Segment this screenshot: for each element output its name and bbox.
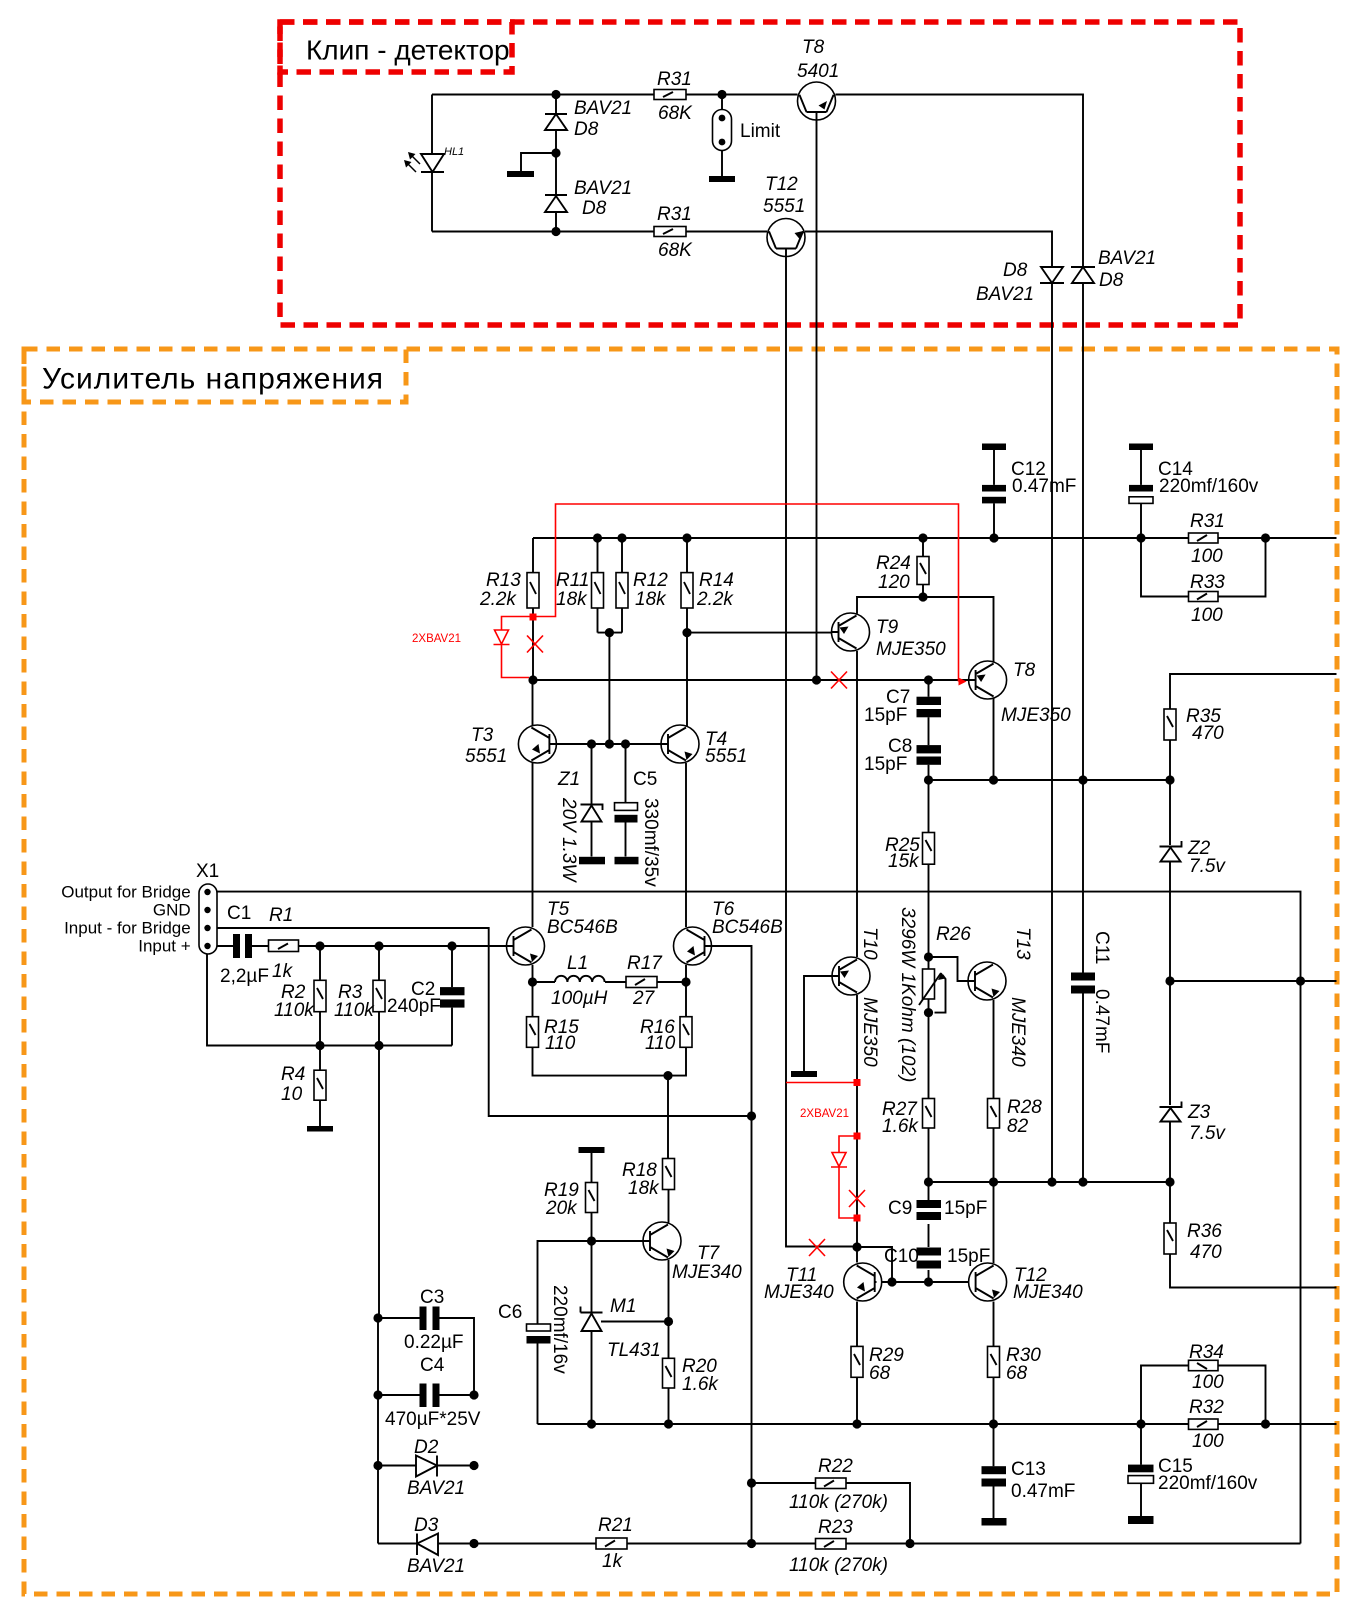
svg-text:100: 100 <box>1191 546 1223 567</box>
wire: C15 column <box>1140 1424 1142 1516</box>
svg-text:Input - for Bridge: Input - for Bridge <box>64 919 191 938</box>
svg-text:T10: T10 <box>859 927 880 960</box>
svg-text:T9: T9 <box>876 617 899 638</box>
capacitor C4 470uF*25V <box>378 1355 481 1430</box>
svg-text:15pF: 15pF <box>864 705 907 726</box>
wire: clip left loop with LED <box>431 95 433 232</box>
svg-text:M1: M1 <box>610 1296 636 1317</box>
svg-text:D8: D8 <box>1003 260 1028 281</box>
wire: C14 column <box>1140 450 1142 538</box>
wire: R24 to T9 collector <box>857 597 923 614</box>
wire: L1 R17 line <box>533 981 687 983</box>
svg-text:Limit: Limit <box>740 121 781 142</box>
svg-text:R31: R31 <box>657 204 692 225</box>
diode D8 upper BAV21 <box>545 98 632 140</box>
capacitor C13 0.47mF <box>982 1459 1076 1526</box>
diode D3 BAV21 <box>407 1515 465 1577</box>
wire: T8 collector <box>993 699 995 781</box>
resistor R12 18k <box>616 570 668 610</box>
wire: Z2 column <box>1169 780 1171 981</box>
resistor R14 2.2k <box>681 570 734 610</box>
transistor T9 MJE350 <box>832 613 947 660</box>
svg-text:5401: 5401 <box>797 61 839 82</box>
wire: R11 column <box>597 538 599 633</box>
wire: R31 R33 loop <box>1141 538 1266 597</box>
resistor R32 100 <box>1189 1397 1225 1452</box>
svg-text:5551: 5551 <box>465 746 507 767</box>
wire: T11 collector stub <box>856 1247 858 1263</box>
wire: T12 emitter R30 column <box>993 1302 995 1425</box>
wire: R18 column T7 collector <box>667 1076 670 1223</box>
svg-text:R32: R32 <box>1189 1397 1224 1418</box>
wire: C9 C10 column <box>928 1182 930 1282</box>
transistor T13 MJE340 <box>968 927 1033 1067</box>
svg-text:100: 100 <box>1192 1372 1224 1393</box>
capacitor C5 330mf/35v <box>615 769 662 887</box>
svg-text:68K: 68K <box>658 240 693 261</box>
svg-text:470: 470 <box>1192 723 1224 744</box>
wire: C2 column <box>451 946 453 1046</box>
svg-text:Input +: Input + <box>138 937 191 956</box>
svg-text:68: 68 <box>869 1363 891 1384</box>
svg-text:BC546B: BC546B <box>547 917 618 938</box>
red diode 2XBAV21 (left) <box>412 617 533 678</box>
svg-text:220mf/160v: 220mf/160v <box>1159 476 1259 497</box>
svg-text:Z3: Z3 <box>1187 1102 1211 1123</box>
svg-text:R11: R11 <box>556 570 589 591</box>
svg-text:C4: C4 <box>420 1355 445 1376</box>
wire: bottom feedback line y1543 <box>378 1543 1301 1545</box>
svg-text:20V 1.3W: 20V 1.3W <box>558 797 579 883</box>
resistor R1 1k <box>269 905 299 982</box>
svg-text:C9: C9 <box>888 1198 912 1219</box>
resistor R16 110 <box>640 1017 692 1054</box>
resistor R29 68 <box>851 1345 904 1384</box>
wire: T3 collector <box>532 680 534 726</box>
svg-text:R13: R13 <box>486 570 521 591</box>
svg-text:D8: D8 <box>574 119 599 140</box>
svg-text:R28: R28 <box>1007 1097 1042 1118</box>
svg-text:BAV21: BAV21 <box>1098 248 1156 269</box>
diode BAV21 (clip right, right one) <box>1071 248 1156 291</box>
resistor R13 2.2k <box>479 570 539 610</box>
wire: C5 column <box>625 744 627 857</box>
transistor T4 5551 <box>661 725 747 767</box>
zener Z1 20V 1.3W <box>557 769 603 883</box>
svg-text:T7: T7 <box>697 1243 721 1264</box>
svg-text:20k: 20k <box>545 1198 578 1219</box>
svg-text:3296W 1Kohm (102): 3296W 1Kohm (102) <box>897 907 918 1082</box>
svg-text:R12: R12 <box>633 570 668 591</box>
resistor R15 110 <box>527 1017 580 1054</box>
wire: T6 base down to R22 R23 <box>704 946 752 1544</box>
svg-text:110: 110 <box>545 1033 576 1054</box>
connector Limit <box>709 110 781 183</box>
wire: right feedback vertical x1300 <box>1300 981 1302 1544</box>
svg-text:220mf/16v: 220mf/16v <box>549 1285 570 1374</box>
wire: C3 C4 D2 left column <box>377 1318 379 1544</box>
diode D2 BAV21 <box>378 1437 474 1499</box>
wire: R25 column <box>928 780 930 957</box>
resistor R35 470 <box>1164 706 1224 744</box>
capacitor C11 0.47mF <box>1071 931 1112 1053</box>
diode D8 lower BAV21 <box>545 178 632 219</box>
svg-text:110k (270k): 110k (270k) <box>789 1555 888 1576</box>
wire: R26 pot column <box>928 957 930 1013</box>
wire: R24 column <box>922 538 924 597</box>
resistor R34 100 <box>1189 1342 1225 1393</box>
wire: T12 collector <box>993 1182 995 1263</box>
svg-text:T12: T12 <box>765 174 798 195</box>
capacitor C9 15pF <box>888 1198 987 1220</box>
svg-text:15pF: 15pF <box>864 754 907 775</box>
shunt regulator M1 TL431 <box>581 1296 661 1361</box>
power bar (Z1) <box>579 857 605 865</box>
svg-text:R33: R33 <box>1190 572 1225 593</box>
wire: R22 branch <box>752 1483 911 1544</box>
wire: Z3 column <box>1169 981 1171 1182</box>
capacitor C10 15pF <box>884 1246 990 1269</box>
svg-text:D3: D3 <box>414 1515 439 1536</box>
wire: bottom line y1046 to connector <box>207 954 452 1046</box>
wire: T10 emitter down to T11 <box>856 995 858 1247</box>
svg-text:BAV21: BAV21 <box>407 1556 465 1577</box>
wire: T11 T12 base line <box>877 1281 976 1283</box>
potentiometer R26 3296W 1Kohm (102) <box>897 907 971 1082</box>
svg-text:R36: R36 <box>1187 1221 1222 1242</box>
zener Z2 7.5v <box>1160 838 1227 877</box>
red X cut (T10 emitter) <box>849 1190 865 1207</box>
transistor T7 MJE340 <box>643 1222 742 1283</box>
transistor T8 MJE350 <box>969 660 1072 726</box>
svg-text:C6: C6 <box>498 1302 522 1323</box>
capacitor C8 15pF <box>864 736 941 775</box>
svg-text:BAV21: BAV21 <box>976 284 1034 305</box>
wire: output rail y891 <box>217 892 1301 981</box>
power bar (C5) <box>615 857 639 865</box>
red X cut (T11 collector line) <box>809 1239 825 1256</box>
wire: T11 junction to base line <box>857 1247 892 1282</box>
wire: rail y780 <box>929 779 1171 781</box>
wire: R14 column to T4 collector <box>687 538 832 726</box>
svg-text:Усилитель напряжения: Усилитель напряжения <box>42 363 384 396</box>
capacitor C7 15pF <box>864 687 941 726</box>
wire: rail y981 <box>1170 980 1337 982</box>
svg-text:1k: 1k <box>272 961 294 982</box>
svg-text:T8: T8 <box>1013 660 1036 681</box>
svg-text:2XBAV21: 2XBAV21 <box>800 1108 849 1120</box>
svg-text:L1: L1 <box>567 953 588 974</box>
wire: clip T12 emitter to left diode <box>805 232 1052 268</box>
resistor R21 1k <box>596 1515 633 1572</box>
wire: R12 column <box>598 538 623 744</box>
wire: limit connector stub and ground <box>721 95 723 177</box>
resistor R30 68 <box>988 1345 1042 1384</box>
wire: T3 T4 base line y744 <box>549 743 669 745</box>
wire: X1 pin4 input line <box>217 945 507 947</box>
svg-text:R31: R31 <box>657 69 692 90</box>
svg-text:82: 82 <box>1007 1116 1029 1137</box>
red node square (R13 bottom) <box>530 614 537 621</box>
resistor R36 470 <box>1164 1221 1222 1263</box>
resistor R17 27 <box>626 953 663 1009</box>
svg-text:MJE340: MJE340 <box>1007 997 1028 1067</box>
inductor L1 100uH <box>551 953 608 1009</box>
wire: M1 ref line <box>601 1321 669 1323</box>
svg-text:MJE340: MJE340 <box>764 1282 834 1303</box>
transistor T10 MJE350 <box>832 927 880 1067</box>
svg-text:7.5v: 7.5v <box>1189 1123 1226 1144</box>
svg-text:R4: R4 <box>281 1064 305 1085</box>
svg-text:1k: 1k <box>602 1551 624 1572</box>
resistor R19 20k <box>544 1180 598 1219</box>
transistor T3 5551 <box>465 725 556 767</box>
wire: T3 emitter to T5 collector <box>532 763 534 927</box>
capacitor C12 0.47mF <box>982 444 1076 504</box>
svg-text:1.6k: 1.6k <box>882 1116 919 1137</box>
wire: R34 loop <box>1141 1366 1266 1425</box>
red X cut (below R13) <box>527 636 543 653</box>
wire: amp +rail y538 <box>533 537 1337 539</box>
resistor R31 lower 68K <box>654 204 693 261</box>
svg-text:C10: C10 <box>884 1246 919 1267</box>
svg-text:T8: T8 <box>802 37 825 58</box>
svg-text:C3: C3 <box>420 1287 444 1308</box>
wire: T4 emitter to T6 collector <box>685 763 687 927</box>
svg-text:18k: 18k <box>635 589 667 610</box>
diode D8 (clip right, left one) <box>976 260 1064 305</box>
transistor T5 BC546B <box>507 899 619 965</box>
svg-text:Клип - детектор: Клип - детектор <box>306 35 510 66</box>
capacitor C6 220mf/16v <box>498 1285 570 1374</box>
svg-text:110k (270k): 110k (270k) <box>789 1492 888 1513</box>
svg-text:110: 110 <box>645 1033 676 1054</box>
svg-text:120: 120 <box>878 572 910 593</box>
svg-text:2,2µF: 2,2µF <box>220 966 269 987</box>
svg-text:R22: R22 <box>818 1456 853 1477</box>
resistor R23 110k (270k) <box>789 1517 888 1576</box>
svg-text:Output for Bridge: Output for Bridge <box>61 883 190 902</box>
resistor R24 120 <box>876 553 929 593</box>
svg-text:5551: 5551 <box>705 746 747 767</box>
svg-text:18k: 18k <box>556 589 588 610</box>
svg-text:R26: R26 <box>936 924 971 945</box>
wire: rail y680 T8 base line <box>533 679 969 681</box>
svg-text:GND: GND <box>153 901 191 920</box>
svg-text:T13: T13 <box>1012 927 1033 960</box>
svg-text:MJE350: MJE350 <box>876 639 946 660</box>
ground (R4) <box>307 1126 333 1132</box>
wire: R27 column <box>928 1013 930 1182</box>
clip detector box <box>280 22 1240 325</box>
svg-text:15pF: 15pF <box>944 1198 987 1219</box>
voltage amplifier box <box>24 349 1337 1594</box>
ground (T10 base) <box>791 1071 817 1077</box>
wire: C7 C8 column <box>928 680 930 780</box>
svg-text:110k: 110k <box>334 1000 375 1021</box>
svg-text:2.2k: 2.2k <box>479 589 517 610</box>
svg-text:D8: D8 <box>1099 270 1124 291</box>
svg-text:470µF*25V: 470µF*25V <box>385 1409 481 1430</box>
wire: R3 column down to C3 <box>378 946 380 1318</box>
wire: R35 top line <box>1170 674 1337 780</box>
resistor R18 18k <box>622 1159 675 1200</box>
wire: T10 base to ground <box>804 976 832 1071</box>
wire: C12 column <box>993 450 995 538</box>
svg-text:18k: 18k <box>628 1178 660 1199</box>
red diode 2XBAV21 (right) <box>831 1133 861 1222</box>
wire: clip D8 column <box>555 95 557 232</box>
wire: T13 emitter R28 column <box>993 1000 995 1182</box>
svg-text:220mf/160v: 220mf/160v <box>1158 1473 1258 1494</box>
svg-text:HL1: HL1 <box>444 146 464 158</box>
svg-text:C1: C1 <box>227 903 251 924</box>
svg-text:MJE350: MJE350 <box>859 997 880 1067</box>
wire: C13 column <box>993 1424 995 1518</box>
svg-text:470: 470 <box>1190 1242 1222 1263</box>
svg-text:7.5v: 7.5v <box>1189 856 1226 877</box>
svg-text:T3: T3 <box>471 725 494 746</box>
wire: R13 column <box>532 538 534 680</box>
wire: Z1 column <box>591 744 593 857</box>
svg-text:0.47mF: 0.47mF <box>1012 476 1076 497</box>
svg-text:5551: 5551 <box>763 196 805 217</box>
wire: bottom rail y1424 <box>538 1423 1337 1425</box>
svg-text:MJE350: MJE350 <box>1001 705 1071 726</box>
red jumper at T10 emitter <box>786 1079 861 1120</box>
wire: clip bottom rail <box>432 231 767 233</box>
red X cut (T8 base line) <box>831 672 847 689</box>
svg-text:BAV21: BAV21 <box>574 178 632 199</box>
svg-text:2XBAV21: 2XBAV21 <box>412 633 461 645</box>
wire: rail y1182 <box>929 1181 1171 1183</box>
svg-text:X1: X1 <box>196 861 219 882</box>
svg-text:R34: R34 <box>1189 1342 1224 1363</box>
svg-text:BC546B: BC546B <box>712 917 783 938</box>
svg-text:68K: 68K <box>658 103 693 124</box>
resistor R3 110k <box>334 980 385 1021</box>
svg-text:Z1: Z1 <box>557 769 580 790</box>
transistor T6 BC546B <box>674 899 784 965</box>
svg-text:100: 100 <box>1192 1431 1224 1452</box>
resistor R22 110k (270k) <box>789 1456 888 1513</box>
wire: clip diodes down to border <box>1052 283 1083 1182</box>
svg-text:27: 27 <box>632 988 656 1009</box>
resistor R2 110k <box>274 980 326 1021</box>
svg-text:R1: R1 <box>269 905 293 926</box>
svg-text:MJE340: MJE340 <box>1013 1282 1083 1303</box>
svg-text:R23: R23 <box>818 1517 853 1538</box>
svg-text:0.47mF: 0.47mF <box>1091 989 1112 1053</box>
wire: T7 emitter R20 column <box>668 1260 670 1424</box>
wire: R19 M1 column <box>591 1153 593 1424</box>
svg-text:BAV21: BAV21 <box>574 98 632 119</box>
wire: clip top rail <box>432 94 798 96</box>
power bar (R19) <box>579 1147 605 1153</box>
resistor R20 1.6k <box>663 1356 720 1395</box>
transistor T12 MJE340 <box>969 1263 1084 1303</box>
zener Z3 7.5v <box>1160 1102 1227 1145</box>
ground (clip detector) <box>507 171 534 177</box>
svg-text:68: 68 <box>1006 1363 1028 1384</box>
svg-text:R24: R24 <box>876 553 911 574</box>
wire: R26 tap to T13 base <box>929 957 969 981</box>
wire: clip ground stub <box>521 153 556 171</box>
wire: X1 pin2 GND stub <box>199 909 207 911</box>
svg-text:15k: 15k <box>888 851 920 872</box>
wire: T8 base vertical <box>816 112 818 680</box>
svg-text:C5: C5 <box>633 769 657 790</box>
svg-text:D8: D8 <box>582 198 607 219</box>
svg-text:240pF: 240pF <box>387 996 441 1017</box>
LED HL1 <box>404 146 464 172</box>
svg-text:0.47mF: 0.47mF <box>1011 1481 1075 1502</box>
capacitor C15 220mf/160v <box>1128 1456 1258 1524</box>
red mod wire: R13 to T8 base <box>537 504 959 682</box>
svg-text:R31: R31 <box>1190 511 1225 532</box>
wire: X1 pin3 line <box>217 928 752 1116</box>
wire: R2 column <box>319 946 321 1046</box>
capacitor C3 0.22uF <box>378 1287 474 1395</box>
wire: R4 column <box>319 1046 321 1127</box>
resistor R31 100 <box>1189 511 1225 567</box>
wire: T5 emitter <box>532 965 534 982</box>
svg-text:R14: R14 <box>699 570 734 591</box>
wire: R16 column <box>668 982 686 1076</box>
svg-text:MJE340: MJE340 <box>672 1262 742 1283</box>
wire: T11 emitter R29 column <box>856 1302 858 1425</box>
connector X1 <box>61 861 219 956</box>
capacitor C2 240pF <box>387 979 465 1017</box>
svg-text:TL431: TL431 <box>607 1340 661 1361</box>
resistor R28 82 <box>988 1097 1043 1137</box>
transistor T8 5401 (clip) <box>797 37 839 120</box>
svg-text:100: 100 <box>1191 605 1223 626</box>
capacitor C1 2,2uF <box>220 903 269 987</box>
wire: T7 base line and C6 column <box>538 1241 644 1424</box>
wire: R24 to T8 emitter <box>923 597 994 662</box>
resistor R27 1.6k <box>882 1099 935 1138</box>
svg-text:BAV21: BAV21 <box>407 1478 465 1499</box>
svg-text:100µH: 100µH <box>551 988 608 1009</box>
red arrow at T8 base <box>959 678 967 686</box>
resistor R33 100 <box>1189 572 1226 626</box>
svg-text:110k: 110k <box>274 1000 315 1021</box>
svg-text:C11: C11 <box>1091 931 1112 964</box>
svg-text:R17: R17 <box>627 953 663 974</box>
transistor T12 5551 (clip) <box>763 174 805 257</box>
resistor R4 10 <box>281 1064 326 1105</box>
resistor R31 upper 68K <box>654 69 693 124</box>
resistor R25 15k <box>885 833 935 873</box>
svg-text:R21: R21 <box>598 1515 633 1536</box>
svg-text:10: 10 <box>281 1084 303 1105</box>
wire: T9 emitter to T10 collector <box>856 651 858 957</box>
wire: T12 base vertical <box>786 249 857 1247</box>
svg-text:2.2k: 2.2k <box>696 589 734 610</box>
wire: clip T8 emitter to right diode <box>836 95 1084 268</box>
wire: T6 emitter <box>685 965 687 982</box>
svg-text:1.6k: 1.6k <box>682 1374 719 1395</box>
wire: R36 column and out line <box>1170 1182 1337 1288</box>
svg-text:0.22µF: 0.22µF <box>404 1332 464 1353</box>
transistor T11 MJE340 <box>764 1263 882 1303</box>
wire: R15 column <box>533 982 669 1076</box>
svg-text:C13: C13 <box>1011 1459 1046 1480</box>
resistor R11 18k <box>556 570 604 610</box>
svg-text:330mf/35v: 330mf/35v <box>640 798 661 887</box>
svg-text:D2: D2 <box>414 1437 439 1458</box>
